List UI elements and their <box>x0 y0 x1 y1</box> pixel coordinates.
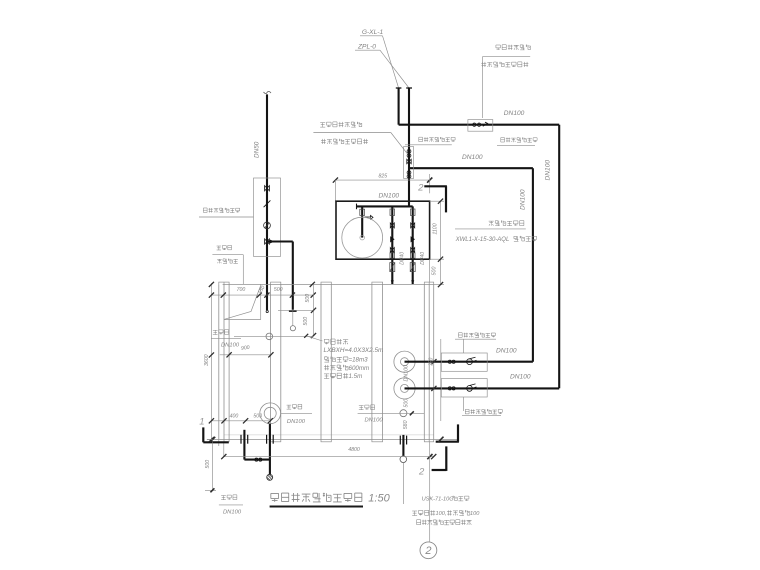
pipe suction to gas vessel <box>360 206 373 237</box>
label empty pipe (drain) <box>219 495 243 516</box>
note flow signal <box>422 496 469 503</box>
flow switch (sprinkler) box <box>468 120 493 132</box>
valve box on DN50 (with lock) <box>254 178 281 256</box>
svg-text:DN40: DN40 <box>400 252 406 265</box>
svg-text:=18m3: =18m3 <box>349 357 369 364</box>
svg-text:DN100: DN100 <box>510 374 531 381</box>
svg-text:700: 700 <box>237 287 246 293</box>
note distances <box>412 510 480 517</box>
svg-text:USK-71-10G: USK-71-10G <box>422 497 455 503</box>
tank right wall (triple line) <box>424 282 434 442</box>
svg-text:DN100: DN100 <box>365 418 384 424</box>
svg-text:DN100: DN100 <box>287 419 306 425</box>
label DN100 on top line <box>504 110 525 117</box>
pipe chain B from unit to tank <box>410 206 415 284</box>
ladder symbol in tank <box>224 284 260 319</box>
section mark 2 bottom <box>418 424 459 541</box>
dimension 900 <box>220 345 274 358</box>
label DN100 rotated between outlets <box>403 365 409 382</box>
svg-text:DN100: DN100 <box>223 510 242 516</box>
pipe overflow drop B <box>267 424 274 475</box>
svg-text:G-XL-1: G-XL-1 <box>362 29 384 36</box>
svg-text:2: 2 <box>418 467 425 478</box>
label ZPL-0 riser tag <box>355 44 409 89</box>
svg-text:DN100: DN100 <box>221 343 240 349</box>
vent circle on left wall <box>234 333 314 340</box>
title roof fire tank plan <box>270 493 391 507</box>
svg-text:DN40: DN40 <box>420 252 426 265</box>
svg-text:LXBXH=4.0X3X2.5m: LXBXH=4.0X3X2.5m <box>324 347 385 354</box>
extension valve boxes left edge <box>440 339 442 421</box>
label DN100 at valve box 1 <box>496 348 517 355</box>
label DN40 chain A <box>400 252 406 265</box>
dimension 1100 and 500 right of unit <box>430 199 444 288</box>
label DN100 above unit <box>379 193 400 200</box>
svg-text:500: 500 <box>303 317 309 326</box>
svg-text:DN100: DN100 <box>545 160 552 181</box>
svg-text:XWL1-X-15-30-AQL: XWL1-X-15-30-AQL <box>455 237 510 243</box>
pipe header inside unit <box>357 204 413 210</box>
label access hole <box>212 245 243 284</box>
tank left wall (triple line) <box>219 282 230 442</box>
svg-text:1: 1 <box>199 417 204 428</box>
label valve box with lock (left) <box>199 208 254 217</box>
extension line left of tank <box>219 442 224 457</box>
wire right riser down x=559.2 <box>558 125 560 389</box>
svg-text:500: 500 <box>305 294 311 303</box>
tank outline <box>207 284 459 439</box>
section mark 2 top <box>417 182 447 212</box>
label DN100 rotated on outer riser <box>545 160 552 181</box>
label overflow pipe <box>281 404 312 424</box>
valve box on riser (with lock) <box>404 147 414 179</box>
pipe riser G-XL-1 <box>396 88 402 125</box>
dimension 4800 <box>221 447 436 459</box>
svg-text:2: 2 <box>424 545 431 557</box>
tank outlet circle 2 <box>394 378 415 399</box>
extension pump box edge to tank <box>428 259 430 282</box>
label DN40 chain B <box>420 252 426 265</box>
svg-text:1:50: 1:50 <box>368 493 390 505</box>
svg-text:1100: 1100 <box>433 223 439 234</box>
svg-text:DN50: DN50 <box>254 141 261 158</box>
label hydrant flow switch <box>313 122 407 154</box>
pipe drain A <box>241 430 248 460</box>
dimension 825 <box>333 174 433 202</box>
pipe riser ZPL-0 <box>406 88 412 206</box>
label 580 rotated <box>403 420 409 429</box>
dimension row 700 150 500 over tank <box>211 285 315 298</box>
svg-text:3600: 3600 <box>204 354 210 366</box>
svg-text:DN100: DN100 <box>462 154 483 161</box>
svg-text:500: 500 <box>253 414 262 420</box>
svg-text:900: 900 <box>241 345 251 352</box>
svg-text:DN100: DN100 <box>403 365 409 382</box>
tank wall pair 3 <box>372 282 383 442</box>
svg-text:100: 100 <box>470 511 480 517</box>
label valve box right top <box>455 333 496 353</box>
label DN100 rotated on inner riser <box>520 189 527 210</box>
dimension vertical 500/500 at x=313.5 <box>278 282 316 338</box>
label G-XL-1 riser tag <box>360 29 399 88</box>
vent circle right panel <box>400 410 407 417</box>
label cover locked <box>217 259 238 264</box>
pipe branch to vent over tank <box>267 242 297 331</box>
svg-text:1.5m: 1.5m <box>349 373 363 380</box>
svg-text:DN100: DN100 <box>504 110 525 117</box>
label valve box right <box>497 137 537 145</box>
note connect to fire control center <box>417 520 472 525</box>
tank wall pair 1 <box>270 282 281 442</box>
leader drain label <box>205 442 216 492</box>
pipe vent drop through tank bottom <box>400 435 407 504</box>
svg-text:500: 500 <box>432 267 438 276</box>
gas vessel circle <box>342 217 383 258</box>
valve box right 1 <box>441 353 487 371</box>
overflow funnel circle <box>260 403 281 424</box>
label sprinkler flow switch <box>481 45 530 118</box>
floor drain funnel <box>267 474 273 480</box>
leader to tank text <box>304 334 322 341</box>
label pressure stabilizer equipment <box>455 220 537 243</box>
label DN50 <box>254 141 261 158</box>
tank outlet circle 1 <box>394 351 415 372</box>
tank wall pair 2 <box>321 282 332 442</box>
label vent pipe left <box>211 330 241 349</box>
svg-text:2: 2 <box>417 182 424 193</box>
svg-text:500: 500 <box>404 399 410 408</box>
svg-text:DN100: DN100 <box>379 193 400 200</box>
svg-text:500: 500 <box>205 460 211 469</box>
svg-text:825: 825 <box>378 174 387 180</box>
dimension 350 right wall <box>429 357 437 391</box>
dimension 3600 left side <box>204 282 214 442</box>
svg-text:500: 500 <box>274 287 283 293</box>
svg-text:350: 350 <box>429 357 435 366</box>
svg-text:ZPL-0: ZPL-0 <box>357 44 376 51</box>
pipe chain A from unit to tank <box>390 206 395 284</box>
svg-text:100,: 100, <box>436 511 447 517</box>
label 500 rotated below outlet2 <box>404 399 410 408</box>
pressure stabilizer unit box <box>336 201 430 259</box>
label valve box right bottom <box>462 397 502 416</box>
pipe drain horizontal with valve <box>244 458 270 461</box>
pipe DN50 feed riser <box>264 91 272 312</box>
svg-text:DN100: DN100 <box>520 189 527 210</box>
pipe outlet 1 to valve box <box>405 361 533 363</box>
section mark 1 <box>199 417 229 443</box>
svg-text:4800: 4800 <box>348 447 360 453</box>
detail bubble 2 <box>420 542 437 559</box>
dimension 400 500 at overflow <box>209 414 273 424</box>
svg-text:400: 400 <box>230 414 239 420</box>
valve box right 2 <box>441 379 487 397</box>
label DN100 at valve box 2 <box>510 374 531 381</box>
label valve box mid <box>405 137 455 145</box>
wire inner riser down x=532.9 <box>532 168 534 362</box>
wire top horizontal main DN100 y=124.7 <box>399 124 560 126</box>
wire second horizontal DN100 y=168.2 <box>409 167 533 169</box>
label DN100 on second line <box>462 154 483 161</box>
pipe outlet 2 to valve box <box>405 387 560 389</box>
svg-text:600mm: 600mm <box>349 365 370 372</box>
tank data text block <box>324 339 385 380</box>
label vent pipe bottom <box>358 405 424 424</box>
svg-text:DN100: DN100 <box>496 348 517 355</box>
svg-text:580: 580 <box>403 420 409 429</box>
